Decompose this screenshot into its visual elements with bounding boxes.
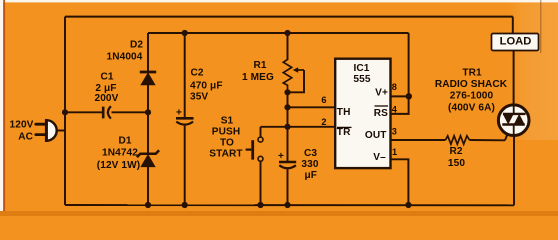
capacitor C3 electrolytic	[278, 151, 296, 168]
label C2 value	[190, 68, 223, 103]
node C2 top junction	[182, 30, 188, 36]
svg-text:D1: D1	[118, 136, 131, 147]
wire R2-to-gate	[470, 139, 506, 141]
wire left rail	[64, 17, 66, 205]
plug P1 AC plug symbol	[36, 119, 57, 142]
diode D1 zener 1N4742	[137, 150, 159, 166]
node R1 wiper junction	[284, 89, 290, 95]
svg-text:(12V 1W): (12V 1W)	[97, 160, 140, 171]
label R2 value	[448, 146, 465, 169]
svg-text:TR1: TR1	[462, 67, 482, 78]
svg-text:C2: C2	[191, 68, 204, 79]
label RS pin name with overline	[374, 106, 388, 119]
label C3 value	[301, 148, 318, 181]
svg-text:OUT: OUT	[365, 130, 387, 141]
node TH junction	[284, 104, 290, 110]
label C1 value	[95, 72, 119, 105]
capacitor C2 electrolytic	[176, 107, 194, 124]
svg-text:IC1: IC1	[353, 63, 369, 74]
capacitor C1	[103, 106, 111, 118]
svg-text:S1: S1	[221, 116, 234, 127]
transistor TR1 triac symbol	[498, 105, 529, 136]
svg-text:4: 4	[392, 104, 398, 114]
node C3 bottom junction	[284, 202, 290, 208]
node D1 bottom junction	[145, 202, 151, 208]
svg-text:8: 8	[392, 82, 397, 92]
wire C3 upper lead	[287, 127, 289, 161]
label 120V AC	[10, 120, 34, 143]
svg-text:150: 150	[448, 158, 465, 169]
op-amp U1 555 IC box	[335, 59, 390, 168]
wire plug stub	[57, 130, 66, 132]
label IC1 555	[353, 63, 370, 85]
svg-text:TO: TO	[220, 138, 234, 149]
svg-text:R1: R1	[253, 60, 266, 71]
svg-text:6: 6	[321, 95, 326, 105]
wire triac gate diagonal	[505, 127, 510, 140]
svg-text:C3: C3	[304, 148, 317, 159]
wire D1 branch	[147, 112, 149, 153]
wire C3 lower lead	[287, 169, 289, 205]
wire D1-to-bottom	[147, 167, 149, 206]
svg-text:TR: TR	[337, 127, 351, 138]
resistor R2 zigzag	[446, 136, 470, 144]
svg-text:35V: 35V	[190, 92, 208, 103]
svg-text:RADIO SHACK: RADIO SHACK	[435, 79, 508, 90]
wire R1-to-TH node	[287, 92, 289, 107]
wire bottom rail	[65, 204, 514, 206]
svg-text:C1: C1	[100, 72, 113, 83]
wire TH pin6 lead	[288, 106, 336, 108]
svg-text:RS: RS	[374, 108, 388, 119]
svg-text:470 μF: 470 μF	[190, 80, 223, 91]
node R1 top junction	[284, 30, 290, 36]
wire right rail triac-to-bottom	[513, 136, 515, 206]
node TR junction	[284, 124, 290, 130]
label TR pin name with overline	[337, 127, 352, 138]
svg-text:3: 3	[392, 126, 397, 136]
svg-text:276-1000: 276-1000	[450, 91, 494, 102]
label D2	[107, 40, 144, 63]
node pin1 bottom junction	[405, 202, 411, 208]
svg-text:330: 330	[301, 159, 318, 170]
svg-text:AC: AC	[18, 132, 33, 143]
svg-text:+: +	[278, 151, 284, 162]
svg-text:D2: D2	[130, 40, 143, 51]
wire pin1 V- lead	[391, 159, 409, 205]
svg-text:+: +	[176, 107, 182, 118]
wire S1 upper riser	[260, 127, 262, 137]
svg-text:V–: V–	[373, 152, 386, 163]
svg-text:PUSH: PUSH	[212, 127, 240, 138]
svg-text:2: 2	[321, 117, 326, 127]
svg-text:1N4004: 1N4004	[107, 51, 143, 62]
wire node-to-TR	[287, 107, 289, 127]
svg-text:200V: 200V	[95, 93, 119, 104]
wire TR pin2 / S1 lead	[261, 126, 336, 128]
potentiometer R1 wiper arrow	[293, 67, 304, 73]
svg-text:START: START	[209, 149, 243, 160]
node pin8 junction	[406, 93, 412, 99]
svg-text:R2: R2	[449, 146, 462, 157]
wire D2 branch upper	[147, 33, 149, 72]
svg-text:(400V 6A): (400V 6A)	[448, 102, 495, 113]
wire right rail LOAD-to-triac	[513, 51, 515, 106]
wire C1 left lead	[65, 111, 102, 113]
wire S1 lower lead	[260, 161, 262, 205]
label TR1 RADIO SHACK	[435, 67, 508, 113]
svg-text:2 μF: 2 μF	[95, 83, 116, 94]
wire pin8 lead	[391, 95, 409, 97]
wire R1 top lead	[287, 33, 289, 60]
svg-text:LOAD: LOAD	[500, 35, 532, 47]
svg-text:1N4742: 1N4742	[102, 148, 138, 159]
label D1	[97, 136, 140, 171]
resistor R1 zigzag	[283, 60, 291, 93]
svg-text:555: 555	[353, 74, 370, 85]
node C1-left rail junction	[62, 109, 68, 115]
wire C2 upper lead	[184, 33, 186, 117]
switch S1 push button	[246, 137, 263, 161]
svg-text:μF: μF	[305, 170, 318, 181]
wire right rail upper (to LOAD)	[512, 17, 514, 34]
diode D2 1N4004	[140, 72, 156, 85]
wire D2-to-C1 node	[147, 85, 149, 113]
label S1	[209, 116, 243, 160]
svg-text:TH: TH	[337, 107, 351, 118]
node C2 bottom junction	[182, 202, 188, 208]
svg-text:1 MEG: 1 MEG	[242, 72, 274, 83]
wire OUT pin3 lead	[391, 139, 446, 141]
wire top rail	[65, 16, 513, 18]
wire V+ drop to pins 8-4	[391, 33, 409, 114]
wire C2 lower lead	[184, 126, 186, 205]
wire C1 right lead	[112, 111, 149, 113]
label R1	[242, 60, 274, 83]
wire R1 wiper L-link	[288, 70, 305, 92]
node C1/D1/D2 junction	[145, 109, 151, 115]
node S1 bottom junction	[257, 202, 263, 208]
svg-text:V+: V+	[375, 88, 388, 99]
svg-text:1: 1	[392, 147, 397, 157]
svg-text:120V: 120V	[10, 120, 34, 131]
wire V+ rail y33	[148, 32, 409, 34]
LOAD box	[492, 34, 539, 51]
